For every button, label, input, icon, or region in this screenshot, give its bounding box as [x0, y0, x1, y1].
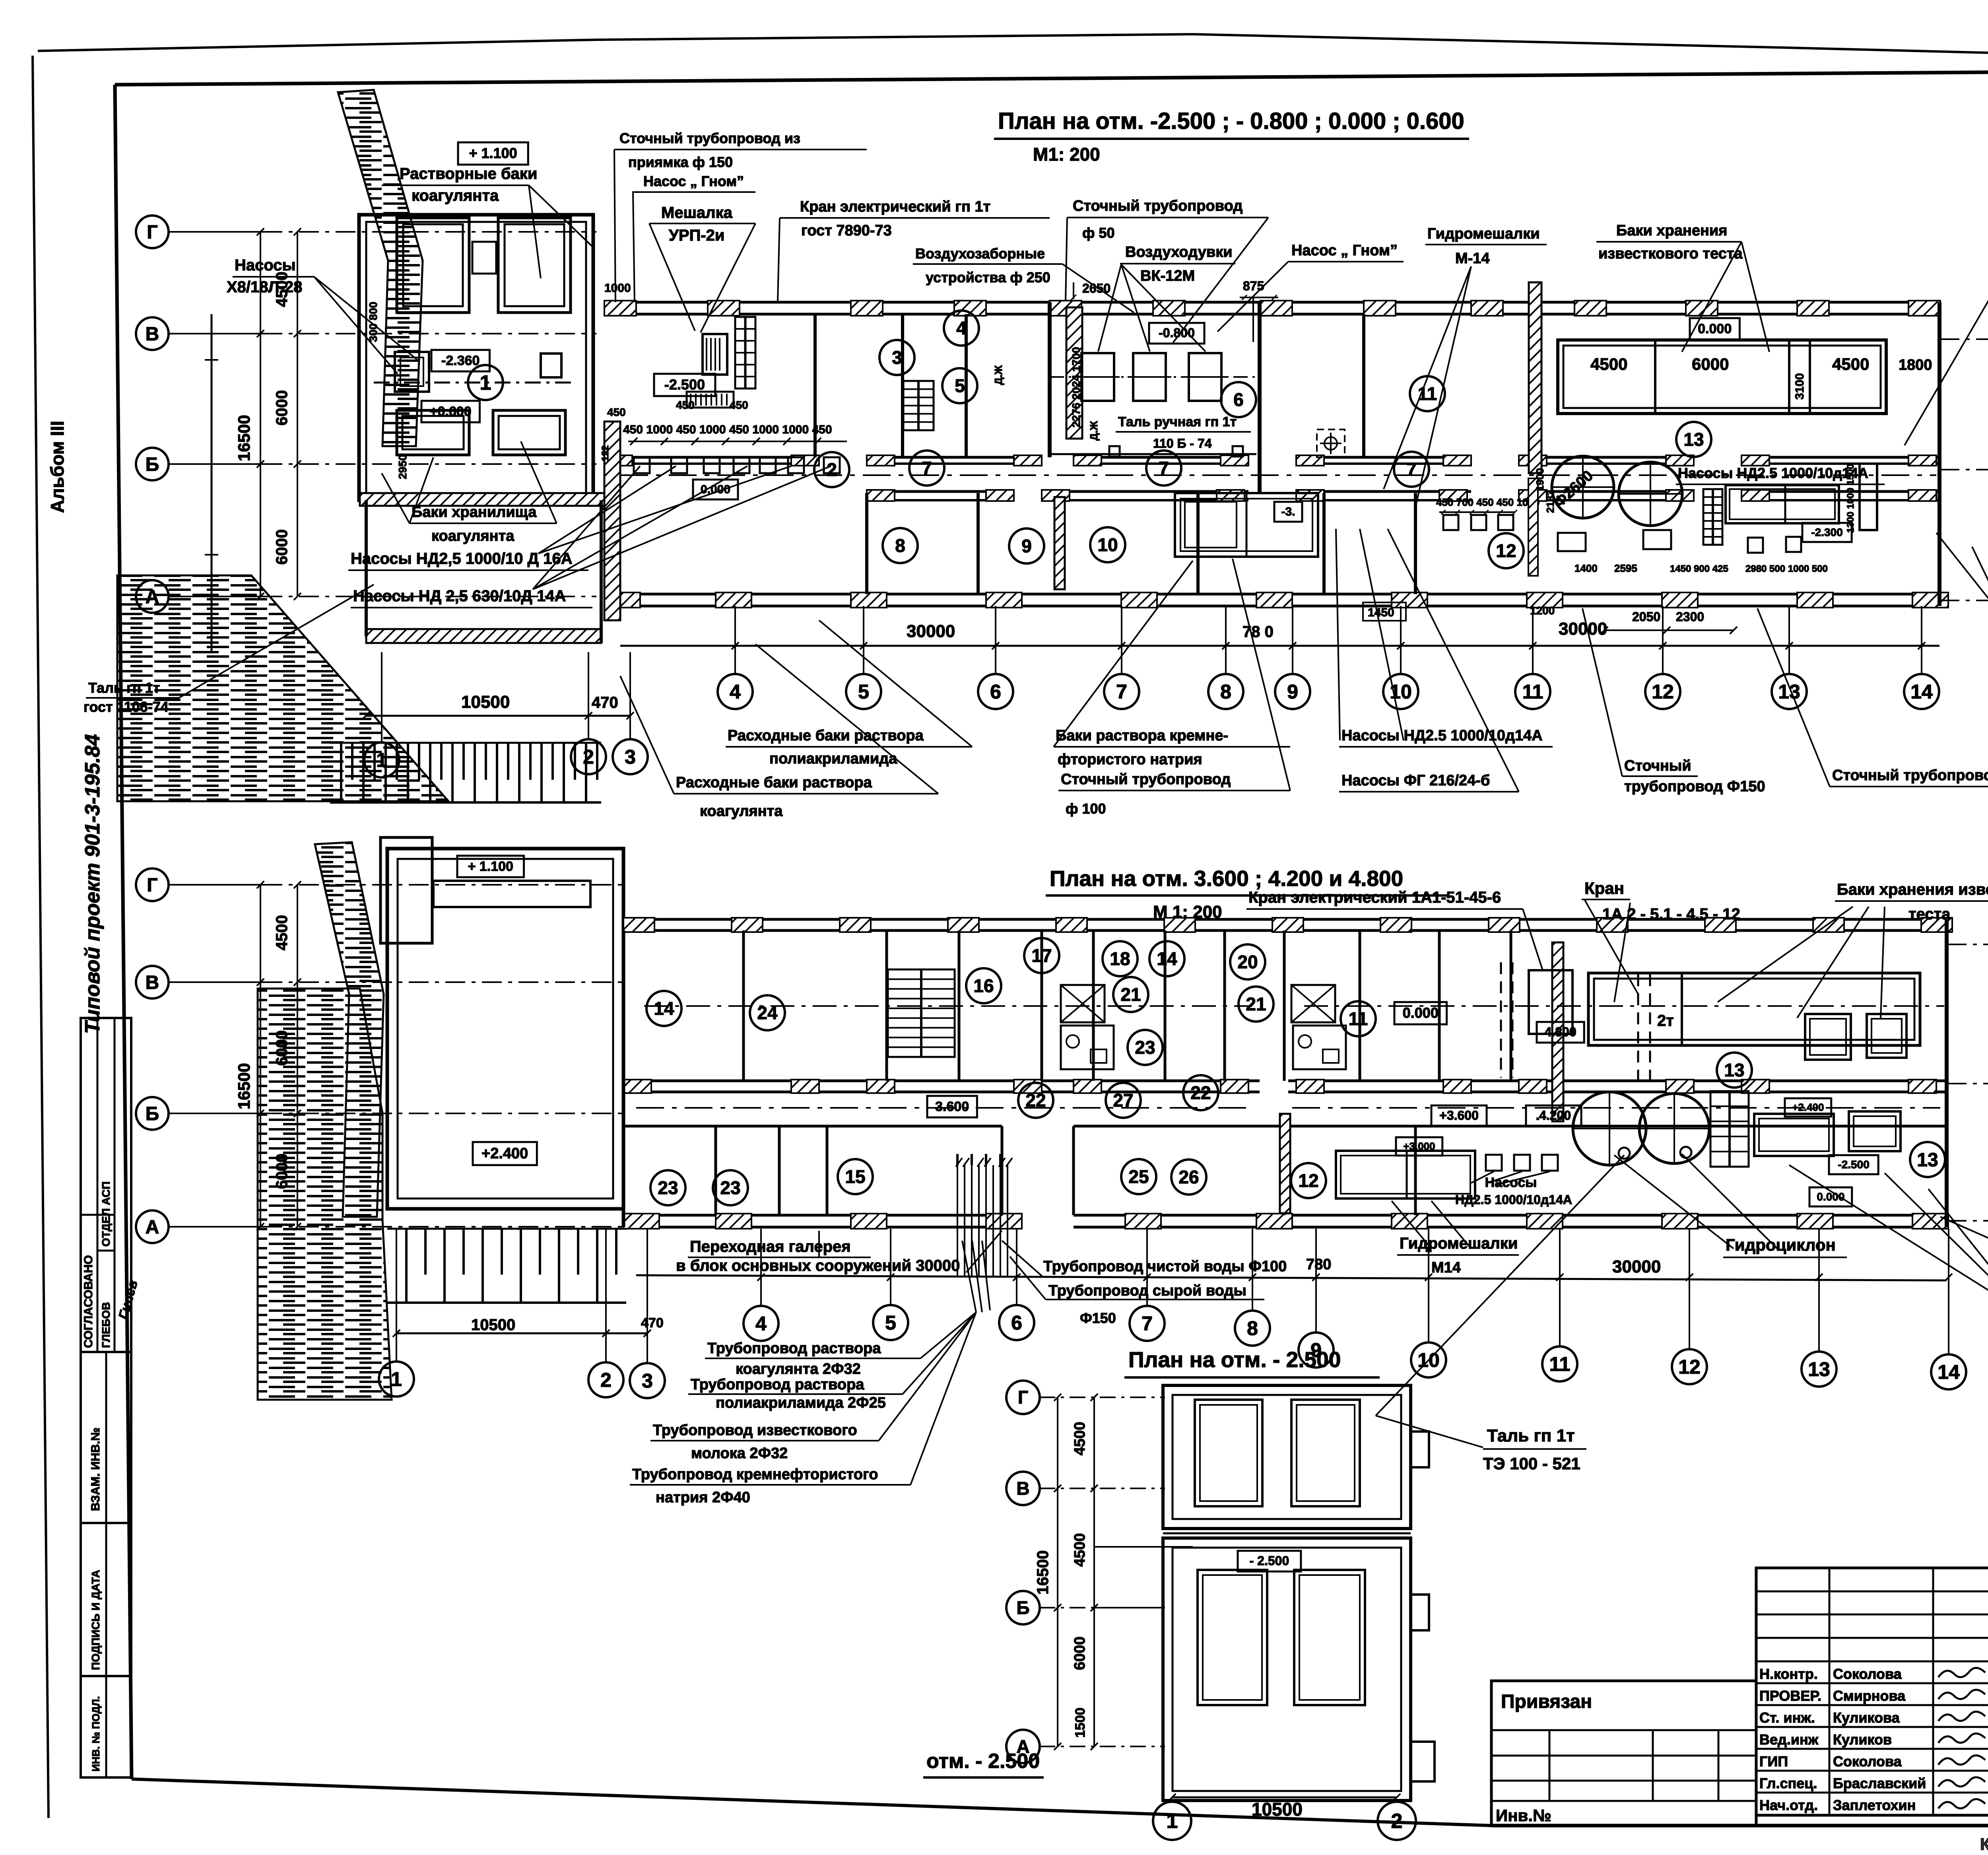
- svg-text:470: 470: [592, 694, 618, 711]
- svg-text:ОТДЕЛ АСП: ОТДЕЛ АСП: [100, 1181, 112, 1247]
- svg-text:13: 13: [1778, 681, 1800, 703]
- svg-text:1450: 1450: [1368, 606, 1394, 619]
- svg-text:450 700 450 450 1000: 450 700 450 450 1000: [1436, 496, 1540, 508]
- svg-text:4: 4: [730, 681, 741, 703]
- svg-text:9: 9: [1021, 536, 1032, 556]
- svg-text:Г: Г: [147, 222, 157, 243]
- svg-text:13: 13: [1683, 429, 1704, 450]
- svg-text:2950: 2950: [396, 455, 409, 479]
- svg-text:План на отм. -2.500 ; - 0.: План на отм. -2.500 ; - 0.800 ; 0.000 ; …: [998, 108, 1464, 134]
- svg-text:Копировала Украинцам: Копировала Украинцам: [1980, 1835, 1988, 1853]
- svg-text:коагулянта: коагулянта: [412, 187, 499, 204]
- svg-text:М1: 200: М1: 200: [1033, 144, 1100, 165]
- svg-text:23: 23: [720, 1177, 740, 1198]
- svg-text:М-14: М-14: [1455, 250, 1490, 267]
- svg-text:Баки раствора кремне-: Баки раствора кремне-: [1056, 727, 1228, 744]
- svg-text:10500: 10500: [461, 692, 510, 712]
- svg-text:2980 500 1000 500: 2980 500 1000 500: [1745, 563, 1828, 574]
- svg-text:ТЭ 100 - 521: ТЭ 100 - 521: [1483, 1454, 1580, 1473]
- svg-text:26: 26: [1178, 1167, 1199, 1187]
- svg-text:9: 9: [1287, 681, 1298, 703]
- svg-text:2: 2: [583, 746, 594, 768]
- svg-text:+ 1.100: + 1.100: [468, 859, 513, 874]
- svg-text:- 2.500: - 2.500: [1250, 1554, 1289, 1568]
- svg-text:10500: 10500: [471, 1316, 515, 1334]
- svg-text:5: 5: [955, 375, 965, 396]
- svg-text:Заплетохин: Заплетохин: [1833, 1797, 1916, 1813]
- svg-text:гост 1106-74: гост 1106-74: [83, 699, 169, 715]
- svg-text:Д.Ж: Д.Ж: [1088, 421, 1100, 441]
- svg-text:7: 7: [1116, 681, 1127, 703]
- svg-text:Кран электрический 1А1-51-45-6: Кран электрический 1А1-51-45-6: [1248, 889, 1501, 906]
- svg-text:-2.500: -2.500: [1838, 1158, 1869, 1171]
- svg-text:полиакриламида: полиакриламида: [769, 750, 897, 767]
- svg-text:Воздуходувки: Воздуходувки: [1125, 244, 1233, 260]
- svg-text:16500: 16500: [235, 1063, 253, 1109]
- svg-text:Насосы НД2.5 1000/10д14А: Насосы НД2.5 1000/10д14А: [1342, 727, 1543, 744]
- svg-text:0.000: 0.000: [1403, 1005, 1439, 1021]
- svg-text:1900: 1900: [1534, 468, 1546, 491]
- svg-text:14: 14: [654, 998, 674, 1019]
- svg-text:Баки хранилища: Баки хранилища: [412, 504, 537, 521]
- svg-text:В: В: [1016, 1478, 1029, 1499]
- svg-text:Привязан: Привязан: [1501, 1691, 1592, 1712]
- svg-text:Трубопровод раствора: Трубопровод раствора: [707, 1340, 881, 1357]
- svg-text:полиакриламида 2Ф25: полиакриламида 2Ф25: [716, 1395, 886, 1411]
- svg-text:6: 6: [990, 681, 1001, 703]
- svg-text:3100: 3100: [1793, 373, 1806, 400]
- svg-text:А: А: [1016, 1736, 1029, 1757]
- svg-text:4: 4: [755, 1313, 767, 1335]
- svg-text:М14: М14: [1431, 1259, 1461, 1276]
- svg-text:2595: 2595: [1614, 562, 1637, 574]
- svg-text:Куликова: Куликова: [1833, 1709, 1900, 1726]
- svg-text:1450 900 425: 1450 900 425: [1670, 563, 1728, 574]
- svg-text:14: 14: [1938, 1361, 1960, 1383]
- svg-text:450: 450: [607, 406, 626, 418]
- svg-text:1: 1: [480, 371, 491, 394]
- svg-text:коагулянта: коагулянта: [700, 803, 783, 820]
- svg-text:20: 20: [1237, 952, 1258, 972]
- svg-text:6000: 6000: [1072, 1636, 1088, 1670]
- svg-text:7: 7: [1406, 459, 1417, 480]
- svg-text:13: 13: [1917, 1150, 1938, 1171]
- svg-text:16500: 16500: [1034, 1550, 1052, 1595]
- svg-text:-3.: -3.: [1281, 505, 1295, 519]
- svg-text:16: 16: [973, 975, 994, 996]
- svg-text:трубопровод Ф150: трубопровод Ф150: [1624, 778, 1765, 795]
- svg-text:гост 7890-73: гост 7890-73: [801, 222, 892, 239]
- svg-text:В: В: [146, 324, 159, 345]
- svg-text:21: 21: [1120, 984, 1141, 1005]
- svg-text:᎐4.200: ᎐4.200: [1536, 1108, 1571, 1123]
- svg-text:Г: Г: [1018, 1387, 1028, 1408]
- svg-text:6000: 6000: [273, 529, 291, 565]
- svg-text:3: 3: [642, 1370, 653, 1392]
- svg-text:4500: 4500: [1072, 1533, 1088, 1567]
- svg-text:Б: Б: [146, 1103, 159, 1125]
- svg-text:4500: 4500: [1590, 355, 1627, 373]
- svg-text:8: 8: [1220, 681, 1231, 703]
- svg-text:Соколова: Соколова: [1833, 1753, 1902, 1770]
- svg-text:приямка ф 150: приямка ф 150: [628, 154, 733, 170]
- svg-text:Гидроциклон: Гидроциклон: [1726, 1235, 1836, 1254]
- svg-text:3: 3: [892, 347, 902, 368]
- svg-text:А: А: [146, 1217, 159, 1238]
- svg-text:Насосы НД2.5 1000/10д14А: Насосы НД2.5 1000/10д14А: [1678, 465, 1868, 481]
- svg-text:А: А: [146, 587, 159, 608]
- svg-text:Трубопровод раствора: Трубопровод раствора: [691, 1376, 864, 1393]
- svg-text:ф 50: ф 50: [1082, 225, 1115, 241]
- svg-text:Ст. инж.: Ст. инж.: [1759, 1709, 1815, 1726]
- svg-text:НД2.5 1000/10д14А: НД2.5 1000/10д14А: [1455, 1193, 1572, 1207]
- svg-text:2650: 2650: [1082, 281, 1110, 295]
- svg-text:450: 450: [730, 399, 748, 411]
- svg-text:30000: 30000: [907, 622, 955, 641]
- svg-text:Типовой проект 901-3-195.84: Типовой проект 901-3-195.84: [81, 734, 104, 1034]
- svg-text:-2.500: -2.500: [664, 377, 705, 393]
- svg-text:1200: 1200: [1530, 604, 1555, 617]
- svg-text:Насос „ Гном”: Насос „ Гном”: [1291, 242, 1398, 259]
- svg-text:8: 8: [1247, 1317, 1258, 1340]
- svg-text:1000: 1000: [604, 282, 631, 295]
- svg-text:Трубопровод сырой воды: Трубопровод сырой воды: [1048, 1282, 1246, 1299]
- svg-text:Переходная галерея: Переходная галерея: [690, 1238, 851, 1255]
- svg-text:22: 22: [1190, 1082, 1211, 1103]
- svg-text:23: 23: [1135, 1037, 1155, 1058]
- svg-text:Нач.отд.: Нач.отд.: [1759, 1797, 1818, 1813]
- svg-text:23: 23: [658, 1177, 678, 1198]
- svg-text:Соколова: Соколова: [1833, 1666, 1902, 1682]
- svg-text:Инв.№: Инв.№: [1496, 1806, 1551, 1825]
- svg-text:СОГЛАСОВАНО: СОГЛАСОВАНО: [82, 1255, 95, 1348]
- svg-text:Таль ручная гп 1т: Таль ручная гп 1т: [1118, 414, 1237, 429]
- svg-text:450 1000 450 1000 450 1000 100: 450 1000 450 1000 450 1000 1000 450: [623, 423, 832, 436]
- svg-text:30000: 30000: [1559, 619, 1607, 639]
- svg-text:Гл.спец.: Гл.спец.: [1759, 1775, 1817, 1791]
- svg-text:6000: 6000: [273, 1030, 291, 1066]
- svg-text:Насосы НД2,5 1000/10 Д 16А: Насосы НД2,5 1000/10 Д 16А: [351, 550, 573, 567]
- svg-text:План на отм. - 2.500: План на отм. - 2.500: [1128, 1347, 1341, 1372]
- svg-text:Гидромешалки: Гидромешалки: [1427, 225, 1540, 242]
- svg-text:Куликов: Куликов: [1833, 1731, 1892, 1748]
- svg-text:ПОДПИСЬ И ДАТА: ПОДПИСЬ И ДАТА: [89, 1570, 102, 1670]
- svg-text:122: 122: [600, 445, 611, 461]
- svg-text:4500: 4500: [1072, 1422, 1088, 1455]
- svg-text:+3.000: +3.000: [1403, 1140, 1435, 1152]
- svg-text:Трубопровод кремнефтористого: Трубопровод кремнефтористого: [632, 1466, 878, 1483]
- svg-text:1500: 1500: [1073, 1707, 1088, 1738]
- svg-text:Растворные баки: Растворные баки: [400, 165, 537, 183]
- svg-text:10500: 10500: [1252, 1799, 1303, 1820]
- svg-text:Насос „ Гном”: Насос „ Гном”: [643, 173, 744, 189]
- svg-text:Таль гп 1т: Таль гп 1т: [1487, 1426, 1575, 1445]
- svg-text:15: 15: [845, 1166, 865, 1187]
- svg-text:Вед.инж: Вед.инж: [1759, 1731, 1819, 1748]
- svg-text:10: 10: [1097, 534, 1118, 555]
- svg-text:фтористого натрия: фтористого натрия: [1058, 751, 1202, 768]
- svg-text:25: 25: [1128, 1166, 1149, 1187]
- svg-text:18: 18: [1110, 948, 1130, 969]
- svg-text:Сточный трубопровод ф 200: Сточный трубопровод ф 200: [1832, 767, 1988, 784]
- svg-text:известкового теста: известкового теста: [1598, 245, 1743, 262]
- svg-text:молока 2Ф32: молока 2Ф32: [691, 1445, 788, 1462]
- svg-text:Б: Б: [146, 454, 159, 475]
- svg-text:Сточный трубопровод из: Сточный трубопровод из: [619, 130, 800, 146]
- svg-text:2050: 2050: [1632, 610, 1660, 624]
- svg-text:3.600: 3.600: [935, 1099, 969, 1114]
- svg-text:Кран электрический гп 1т: Кран электрический гп 1т: [800, 198, 990, 215]
- svg-text:875: 875: [1243, 279, 1264, 293]
- svg-text:ВЗАМ. ИНВ.№: ВЗАМ. ИНВ.№: [89, 1428, 102, 1511]
- svg-text:Насосы НД 2,5 630/10Д 14А: Насосы НД 2,5 630/10Д 14А: [353, 587, 566, 605]
- svg-text:4.800: 4.800: [1545, 1025, 1576, 1039]
- svg-text:Воздухозаборные: Воздухозаборные: [915, 245, 1045, 262]
- svg-text:6: 6: [1233, 389, 1244, 410]
- svg-text:2: 2: [600, 1369, 612, 1391]
- svg-text:УРП-2и: УРП-2и: [669, 227, 724, 244]
- svg-text:+2.400: +2.400: [481, 1145, 528, 1162]
- svg-text:+3.600: +3.600: [1439, 1108, 1479, 1123]
- svg-text:Б: Б: [1016, 1597, 1029, 1618]
- svg-text:11: 11: [1549, 1353, 1571, 1375]
- svg-text:План на отм. 3.600 ; 4.200: План на отм. 3.600 ; 4.200 и 4.800: [1050, 866, 1403, 891]
- svg-text:14: 14: [1910, 681, 1933, 703]
- svg-text:ГЛЕБОВ: ГЛЕБОВ: [100, 1302, 112, 1348]
- svg-text:Браславский: Браславский: [1833, 1775, 1926, 1791]
- svg-text:Смирнова: Смирнова: [1833, 1688, 1906, 1704]
- svg-text:3: 3: [625, 746, 636, 768]
- svg-text:4500: 4500: [1832, 355, 1869, 373]
- svg-text:780: 780: [1306, 1256, 1331, 1273]
- svg-text:6000: 6000: [273, 1154, 291, 1189]
- svg-text:5: 5: [885, 1312, 896, 1334]
- svg-text:14: 14: [1157, 948, 1177, 969]
- svg-text:Н.контр.: Н.контр.: [1759, 1666, 1818, 1682]
- svg-text:1: 1: [376, 749, 387, 771]
- svg-text:Баки хранения: Баки хранения: [1616, 222, 1727, 239]
- svg-text:450: 450: [676, 399, 695, 411]
- svg-text:17: 17: [1031, 945, 1052, 966]
- svg-text:коагулянта 2Ф32: коагулянта 2Ф32: [736, 1361, 861, 1377]
- svg-text:+ 1.100: + 1.100: [469, 145, 517, 161]
- svg-text:78 0: 78 0: [1242, 623, 1274, 641]
- svg-text:2133: 2133: [1544, 490, 1556, 513]
- svg-text:11: 11: [1349, 1008, 1368, 1029]
- svg-text:Сточный: Сточный: [1624, 758, 1691, 774]
- svg-text:7: 7: [1142, 1313, 1153, 1335]
- svg-text:12: 12: [1298, 1170, 1318, 1191]
- svg-text:2300: 2300: [1676, 610, 1704, 624]
- svg-text:5: 5: [858, 681, 869, 703]
- svg-text:ПРОВЕР.: ПРОВЕР.: [1759, 1688, 1821, 1704]
- svg-text:устройства ф 250: устройства ф 250: [926, 269, 1050, 286]
- svg-text:4: 4: [956, 318, 967, 338]
- svg-text:11: 11: [1522, 681, 1543, 703]
- svg-text:2т: 2т: [1657, 1012, 1674, 1029]
- svg-text:1400: 1400: [1574, 562, 1598, 574]
- svg-text:4500: 4500: [273, 915, 291, 950]
- svg-text:Таль гп 1т: Таль гп 1т: [88, 680, 160, 696]
- svg-text:Трубопровод известкового: Трубопровод известкового: [653, 1422, 857, 1439]
- svg-text:ф 100: ф 100: [1066, 800, 1106, 817]
- svg-text:Сточный трубопровод: Сточный трубопровод: [1073, 198, 1242, 214]
- svg-text:13: 13: [1808, 1358, 1830, 1381]
- svg-text:Кран: Кран: [1584, 879, 1624, 897]
- svg-text:ВК-12М: ВК-12М: [1140, 268, 1195, 284]
- svg-text:-2.300: -2.300: [1811, 526, 1842, 538]
- svg-text:Расходные баки раствора: Расходные баки раствора: [728, 727, 924, 744]
- svg-text:ГИП: ГИП: [1759, 1753, 1788, 1770]
- svg-text:натрия 2Ф40: натрия 2Ф40: [656, 1489, 750, 1506]
- svg-text:110 Б - 74: 110 Б - 74: [1153, 436, 1212, 451]
- svg-text:21: 21: [1246, 994, 1266, 1014]
- svg-text:ИНВ. № ПОДЛ.: ИНВ. № ПОДЛ.: [90, 1696, 102, 1771]
- svg-text:Гидромешалки: Гидромешалки: [1400, 1235, 1518, 1252]
- svg-text:Х8/18Л-28: Х8/18Л-28: [227, 278, 302, 296]
- svg-text:8: 8: [895, 535, 905, 556]
- svg-text:1800: 1800: [1899, 357, 1932, 373]
- svg-text:теста: теста: [1908, 905, 1951, 923]
- svg-text:2: 2: [1391, 1810, 1403, 1833]
- svg-text:-2.360: -2.360: [441, 353, 480, 368]
- svg-text:13: 13: [1724, 1060, 1744, 1080]
- svg-text:30000: 30000: [1612, 1257, 1661, 1276]
- svg-text:Насосы ФГ 216/24-б: Насосы ФГ 216/24-б: [1342, 772, 1490, 789]
- svg-text:470: 470: [641, 1315, 664, 1331]
- svg-text:в блок основных сооружений: в блок основных сооружений 30000: [676, 1257, 960, 1274]
- svg-text:0.000: 0.000: [1698, 321, 1732, 336]
- svg-text:1А 2 - 5.1 - 4.5 - 12: 1А 2 - 5.1 - 4.5 - 12: [1602, 905, 1740, 923]
- svg-text:Насосы: Насосы: [235, 256, 296, 274]
- svg-text:16500: 16500: [235, 415, 253, 461]
- svg-text:Д.Ж: Д.Ж: [992, 365, 1004, 385]
- svg-text:12: 12: [1678, 1356, 1701, 1378]
- svg-text:6000: 6000: [273, 390, 291, 425]
- svg-text:300 800: 300 800: [367, 302, 379, 342]
- svg-text:Сточный трубопровод: Сточный трубопровод: [1061, 771, 1231, 788]
- svg-text:Альбом III: Альбом III: [47, 421, 68, 513]
- svg-text:1: 1: [1167, 1810, 1178, 1833]
- svg-text:1: 1: [391, 1368, 402, 1391]
- svg-text:Мешалка: Мешалка: [661, 204, 733, 221]
- svg-text:12: 12: [1652, 681, 1674, 703]
- svg-text:Ф150: Ф150: [1080, 1310, 1116, 1326]
- svg-text:2: 2: [827, 459, 837, 480]
- svg-text:коагулянта: коагулянта: [431, 528, 514, 544]
- svg-text:9: 9: [1310, 1339, 1322, 1362]
- svg-text:6: 6: [1011, 1312, 1022, 1334]
- svg-text:Г: Г: [147, 875, 157, 896]
- svg-text:6000: 6000: [1692, 355, 1729, 373]
- svg-text:Трубопровод чистой воды Ф100: Трубопровод чистой воды Ф100: [1043, 1258, 1287, 1275]
- svg-text:12: 12: [1496, 540, 1516, 561]
- svg-text:В: В: [146, 972, 159, 993]
- svg-text:Расходные баки раствора: Расходные баки раствора: [676, 774, 872, 791]
- svg-text:Баки хранения известкового: Баки хранения известкового: [1837, 881, 1988, 898]
